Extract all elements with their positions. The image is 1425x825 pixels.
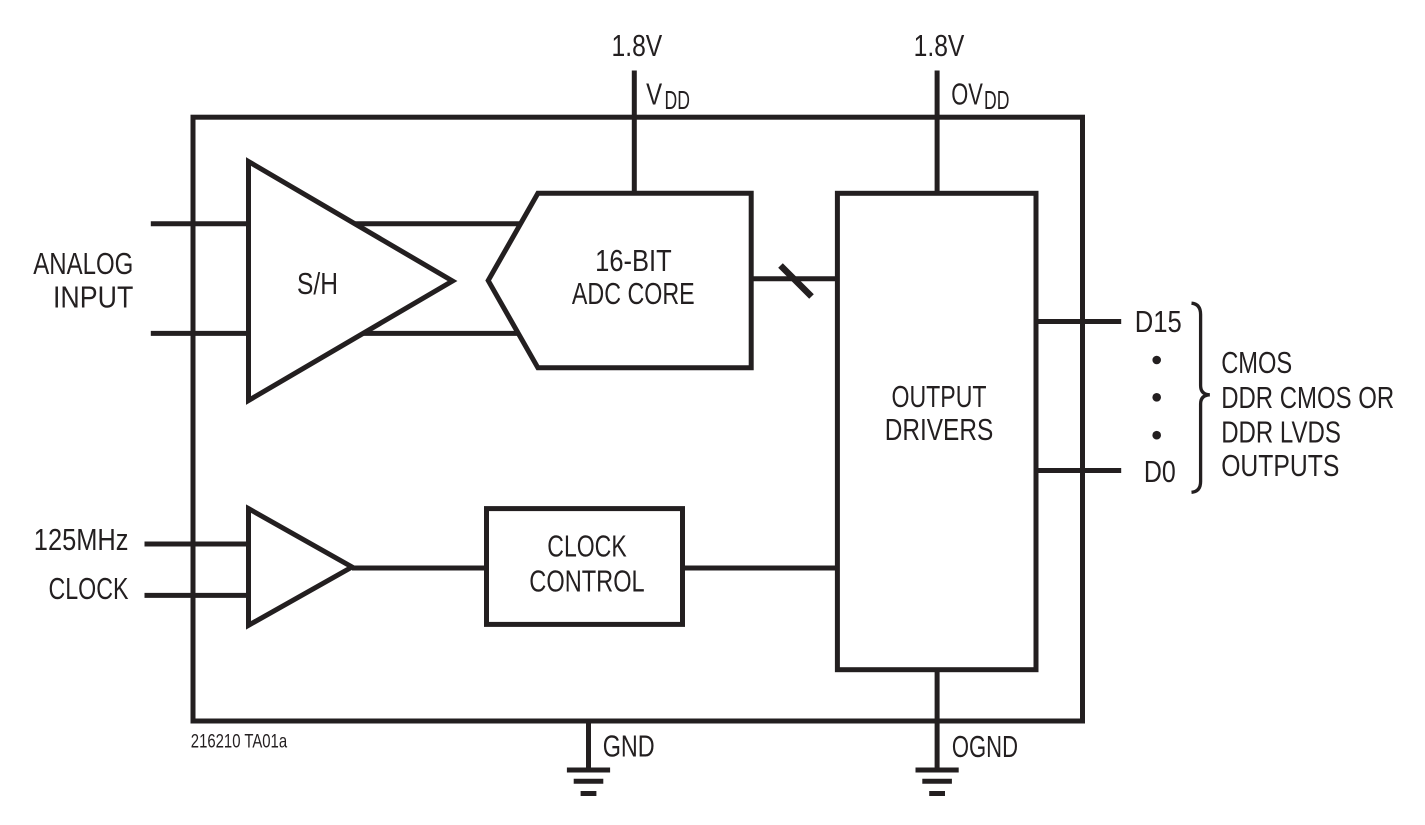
svg-text:DD: DD bbox=[984, 85, 1009, 115]
svg-text:CMOS: CMOS bbox=[1221, 345, 1292, 380]
svg-text:INPUT: INPUT bbox=[53, 280, 133, 315]
svg-text:DDR LVDS: DDR LVDS bbox=[1221, 415, 1341, 450]
svg-text:V: V bbox=[646, 77, 662, 112]
svg-text:S/H: S/H bbox=[297, 266, 338, 301]
svg-text:OUTPUTS: OUTPUTS bbox=[1221, 448, 1339, 483]
svg-text:16-BIT: 16-BIT bbox=[595, 243, 672, 278]
svg-text:1.8V: 1.8V bbox=[612, 28, 663, 63]
svg-text:216210 TA01a: 216210 TA01a bbox=[191, 731, 287, 753]
svg-text:DD: DD bbox=[665, 85, 690, 115]
svg-text:OV: OV bbox=[951, 77, 983, 112]
svg-text:CLOCK: CLOCK bbox=[547, 529, 627, 564]
svg-text:ANALOG: ANALOG bbox=[33, 246, 133, 281]
svg-text:125MHz: 125MHz bbox=[34, 522, 129, 557]
svg-text:OGND: OGND bbox=[952, 729, 1018, 764]
svg-text:ADC CORE: ADC CORE bbox=[572, 276, 695, 311]
svg-text:OUTPUT: OUTPUT bbox=[892, 379, 987, 414]
svg-text:CLOCK: CLOCK bbox=[49, 571, 129, 606]
svg-text:1.8V: 1.8V bbox=[914, 28, 965, 63]
svg-text:D15: D15 bbox=[1135, 304, 1182, 339]
svg-text:GND: GND bbox=[603, 729, 655, 764]
svg-text:D0: D0 bbox=[1144, 454, 1176, 489]
svg-text:DRIVERS: DRIVERS bbox=[885, 412, 994, 447]
svg-text:CONTROL: CONTROL bbox=[529, 564, 644, 599]
svg-text:DDR CMOS OR: DDR CMOS OR bbox=[1221, 380, 1394, 415]
